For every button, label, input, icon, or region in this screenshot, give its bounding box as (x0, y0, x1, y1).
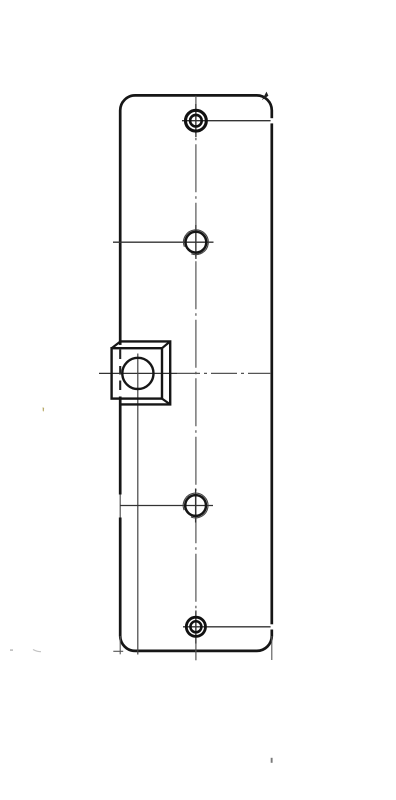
plate outline (120, 95, 272, 651)
boss chamfer diagonal top-right (162, 341, 170, 348)
gap in right edge at hole4 leader (269, 624, 274, 629)
boss horizontal centerline dash-dot part (177, 372, 271, 374)
extension line bottom-left vertical (119, 636, 121, 654)
boss horizontal centerline solid part (99, 372, 177, 374)
extension line bottom-right vertical (271, 636, 273, 660)
hole H4 counterbore outer circle (186, 617, 205, 636)
leader line hole3 (120, 505, 213, 507)
leader line hole2 (113, 241, 214, 243)
boss chamfer diagonal top-left (112, 341, 121, 348)
faint speck left margin (10, 649, 13, 651)
leader line hole1 (182, 120, 271, 122)
boss chamfer diagonal bottom-right (162, 399, 170, 405)
hidden plate edge behind boss (118, 345, 123, 397)
hole H1 counterbore outer circle (186, 110, 207, 131)
boss bore circle (122, 358, 153, 389)
stray yellow speck (43, 407, 45, 411)
faint smudge bottom-left (33, 650, 41, 652)
hole H1 inner circle (190, 115, 202, 127)
hole H2 tapped hole circle (186, 232, 207, 253)
gap in right edge at hole1 leader (269, 118, 274, 123)
hole H4 inner circle (190, 621, 201, 632)
main vertical centerline (195, 96, 197, 663)
hole H2 thread arc (184, 230, 209, 255)
hole H2 vertical tick (195, 225, 197, 259)
radius leader arrowhead top-right corner (262, 92, 269, 101)
extension tick bottom-left horizontal (113, 650, 123, 652)
boss vertical centerline / extension line (137, 354, 139, 655)
stray gray speck (271, 758, 273, 763)
thin segment of left plate edge at hole3 leader (118, 495, 123, 518)
boss back face (121, 341, 171, 404)
hole H1 vertical tick (195, 104, 197, 137)
hole H3 tapped hole circle (185, 495, 206, 516)
hole H3 vertical tick (195, 489, 197, 523)
boss front face (112, 348, 162, 398)
hole H3 thread arc (183, 493, 208, 518)
hole H4 vertical tick (195, 611, 197, 644)
leader line hole4 (183, 626, 271, 628)
